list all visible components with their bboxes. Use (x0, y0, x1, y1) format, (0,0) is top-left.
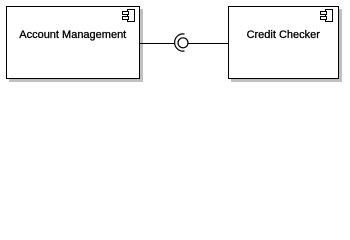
component icon (AccountManagement) bottom tab (123, 17, 129, 20)
component icon (CreditChecker) top tab (321, 12, 327, 15)
provided interface ball (178, 38, 188, 48)
component icon (AccountManagement) body (128, 10, 135, 22)
wire from AccountManagement to socket (140, 43, 175, 45)
component icon (CreditChecker) bottom tab (321, 17, 327, 20)
component icon (CreditChecker) body (326, 10, 333, 22)
wire from ball to CreditChecker (188, 43, 228, 45)
component icon (AccountManagement) top tab (123, 12, 129, 15)
svg-text:Credit Checker: Credit Checker (247, 29, 321, 41)
shadow of component CreditChecker (231, 9, 342, 82)
svg-text:Account Management: Account Management (19, 29, 126, 41)
component CreditChecker box (229, 7, 339, 79)
component AccountManagement box (7, 7, 140, 79)
shadow of component AccountManagement (9, 9, 143, 82)
required interface socket (half circle) (175, 34, 185, 51)
